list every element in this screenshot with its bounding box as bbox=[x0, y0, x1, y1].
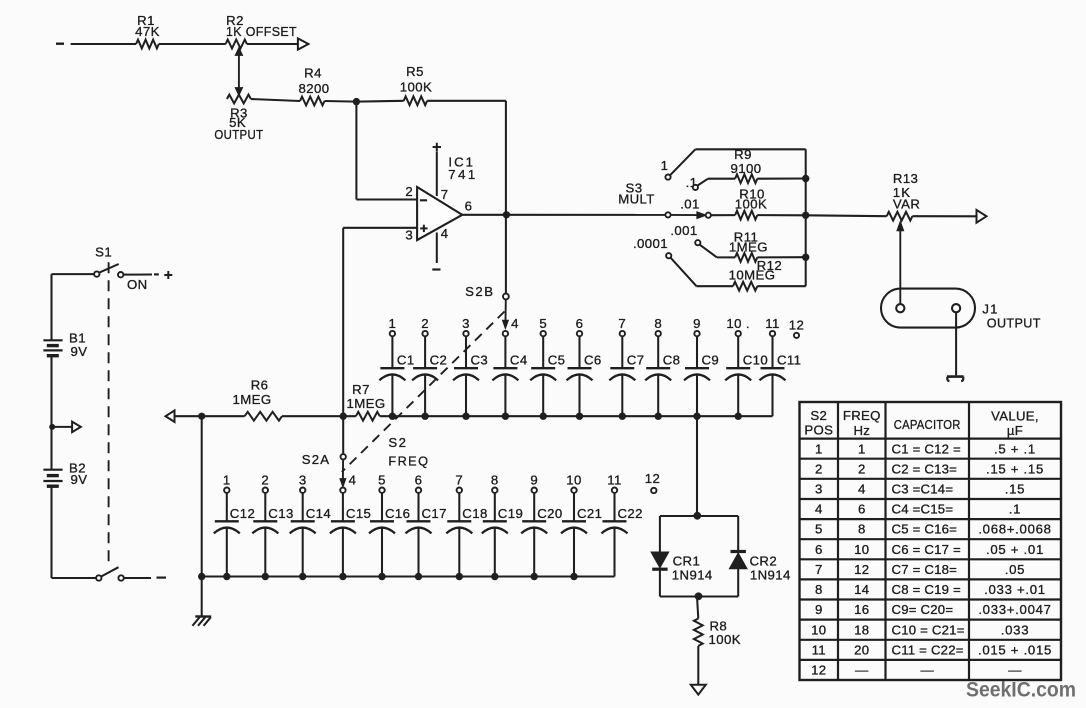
svg-text:7: 7 bbox=[455, 473, 463, 488]
svg-text:8: 8 bbox=[491, 473, 499, 488]
svg-text:CR1: CR1 bbox=[673, 553, 701, 568]
svg-text:C21: C21 bbox=[577, 506, 602, 521]
svg-text:C22: C22 bbox=[618, 506, 643, 521]
svg-text:12: 12 bbox=[645, 471, 660, 486]
svg-text:2: 2 bbox=[261, 473, 269, 488]
svg-text:S2A: S2A bbox=[302, 452, 331, 467]
svg-text:9: 9 bbox=[693, 316, 701, 331]
svg-text:C9= C20=: C9= C20= bbox=[892, 602, 954, 617]
svg-text:C7: C7 bbox=[627, 352, 645, 367]
svg-text:C5: C5 bbox=[548, 352, 566, 367]
svg-text:C7 = C18=: C7 = C18= bbox=[892, 562, 958, 577]
svg-text:C16: C16 bbox=[385, 506, 410, 521]
svg-text:.033+.0047: .033+.0047 bbox=[978, 602, 1051, 617]
svg-text:5: 5 bbox=[539, 316, 547, 331]
svg-text:R13: R13 bbox=[893, 171, 918, 186]
svg-text:9: 9 bbox=[530, 473, 538, 488]
svg-text:CAPACITOR: CAPACITOR bbox=[894, 417, 961, 432]
svg-text:9V: 9V bbox=[71, 472, 88, 487]
svg-text:1: 1 bbox=[858, 441, 866, 456]
svg-text:6: 6 bbox=[858, 502, 866, 517]
svg-text:MULT: MULT bbox=[618, 192, 655, 207]
svg-text:1: 1 bbox=[389, 316, 397, 331]
svg-text:11: 11 bbox=[765, 316, 780, 331]
svg-text:100K: 100K bbox=[400, 80, 432, 95]
svg-text:10MEG: 10MEG bbox=[729, 268, 776, 283]
svg-text:.1: .1 bbox=[1009, 502, 1021, 517]
svg-text:.015 + .015: .015 + .015 bbox=[978, 642, 1052, 657]
svg-text:C4 =C15=: C4 =C15= bbox=[892, 502, 954, 517]
svg-text:C14: C14 bbox=[306, 506, 331, 521]
svg-text:—: — bbox=[920, 663, 934, 678]
svg-text:C3: C3 bbox=[471, 352, 489, 367]
svg-text:11: 11 bbox=[812, 642, 826, 657]
svg-text:C17: C17 bbox=[422, 506, 447, 521]
svg-text:.15: .15 bbox=[1005, 482, 1025, 497]
svg-text:12: 12 bbox=[854, 562, 869, 577]
svg-text:741: 741 bbox=[448, 167, 478, 182]
svg-text:12: 12 bbox=[811, 663, 826, 678]
svg-text:—: — bbox=[855, 663, 869, 678]
svg-text:7: 7 bbox=[815, 562, 823, 577]
svg-text:4: 4 bbox=[511, 316, 519, 331]
svg-text:8: 8 bbox=[858, 522, 866, 537]
svg-text:FREQ: FREQ bbox=[388, 453, 429, 468]
svg-text:8200: 8200 bbox=[299, 81, 330, 96]
svg-text:C8 = C19 =: C8 = C19 = bbox=[892, 582, 962, 597]
svg-text:.05: .05 bbox=[1005, 562, 1025, 577]
svg-text:C6: C6 bbox=[584, 352, 602, 367]
svg-text:6: 6 bbox=[815, 542, 823, 557]
svg-text:7: 7 bbox=[441, 187, 449, 202]
svg-text:1MEG: 1MEG bbox=[729, 240, 768, 255]
svg-text:R4: R4 bbox=[304, 66, 322, 81]
svg-text:C11 = C22=: C11 = C22= bbox=[892, 642, 964, 657]
svg-text:1: 1 bbox=[223, 473, 231, 488]
svg-text:ON: ON bbox=[127, 277, 148, 292]
svg-text:6: 6 bbox=[465, 199, 473, 214]
svg-text:.001: .001 bbox=[670, 223, 697, 238]
svg-text:.01: .01 bbox=[680, 196, 700, 211]
svg-text:8: 8 bbox=[815, 582, 823, 597]
svg-text:S2: S2 bbox=[388, 435, 407, 450]
svg-text:Hz: Hz bbox=[853, 423, 870, 438]
svg-text:9100: 9100 bbox=[731, 161, 762, 176]
svg-text:1N914: 1N914 bbox=[672, 567, 713, 582]
svg-text:1: 1 bbox=[815, 441, 823, 456]
svg-text:.15 + .15: .15 + .15 bbox=[986, 461, 1044, 476]
svg-text:100K: 100K bbox=[735, 197, 767, 212]
svg-text:3: 3 bbox=[405, 227, 413, 242]
svg-text:6: 6 bbox=[415, 473, 423, 488]
svg-text:C18: C18 bbox=[462, 506, 487, 521]
svg-text:—: — bbox=[1008, 663, 1022, 678]
svg-text:47K: 47K bbox=[135, 24, 160, 39]
svg-text:18: 18 bbox=[854, 622, 869, 637]
svg-text:C10 = C21=: C10 = C21= bbox=[892, 622, 965, 637]
svg-text:9V: 9V bbox=[71, 344, 88, 359]
svg-text:OUTPUT: OUTPUT bbox=[987, 315, 1041, 330]
svg-text:1MEG: 1MEG bbox=[233, 392, 272, 407]
svg-text:4: 4 bbox=[815, 502, 823, 517]
svg-text:10: 10 bbox=[811, 622, 826, 637]
svg-text:3: 3 bbox=[299, 473, 307, 488]
svg-text:2: 2 bbox=[858, 461, 866, 476]
svg-text:S2: S2 bbox=[810, 408, 827, 423]
svg-text:C13: C13 bbox=[268, 506, 293, 521]
svg-text:CR2: CR2 bbox=[750, 553, 778, 568]
svg-text:.5 + .1: .5 + .1 bbox=[994, 441, 1036, 456]
svg-text:µF: µF bbox=[1007, 423, 1023, 438]
svg-text:C9: C9 bbox=[702, 352, 720, 367]
svg-text:R7: R7 bbox=[352, 382, 370, 397]
svg-text:1N914: 1N914 bbox=[750, 567, 791, 582]
svg-text:C12: C12 bbox=[230, 506, 255, 521]
svg-text:VALUE,: VALUE, bbox=[991, 408, 1039, 423]
svg-text:.068+.0068: .068+.0068 bbox=[978, 522, 1051, 537]
svg-text:C6 = C17 =: C6 = C17 = bbox=[892, 542, 962, 557]
svg-text:10 .: 10 . bbox=[726, 316, 750, 331]
svg-text:C5 = C16=: C5 = C16= bbox=[892, 522, 958, 537]
svg-text:12: 12 bbox=[789, 318, 804, 333]
svg-text:S1: S1 bbox=[95, 244, 112, 259]
svg-text:FREQ: FREQ bbox=[843, 408, 881, 423]
svg-text:C1 = C12 =: C1 = C12 = bbox=[892, 441, 962, 456]
svg-text:.033: .033 bbox=[1001, 622, 1029, 637]
svg-text:1: 1 bbox=[661, 158, 669, 173]
svg-text:OUTPUT: OUTPUT bbox=[214, 127, 263, 142]
svg-text:4: 4 bbox=[441, 226, 449, 241]
svg-text:S2B: S2B bbox=[465, 284, 494, 299]
svg-text:1MEG: 1MEG bbox=[347, 396, 386, 411]
svg-text:6: 6 bbox=[576, 316, 584, 331]
svg-text:C10: C10 bbox=[743, 352, 768, 367]
svg-text:C1: C1 bbox=[397, 352, 415, 367]
svg-text:C2 = C13=: C2 = C13= bbox=[892, 461, 958, 476]
svg-text:5: 5 bbox=[378, 473, 386, 488]
svg-text:10: 10 bbox=[854, 542, 869, 557]
svg-text:1K OFFSET: 1K OFFSET bbox=[226, 24, 297, 39]
svg-text:VAR: VAR bbox=[893, 196, 920, 211]
svg-text:4: 4 bbox=[858, 482, 866, 497]
svg-text:3: 3 bbox=[462, 316, 470, 331]
svg-text:C4: C4 bbox=[510, 352, 528, 367]
svg-text:2: 2 bbox=[421, 316, 429, 331]
svg-text:R6: R6 bbox=[251, 377, 269, 392]
svg-text:9: 9 bbox=[815, 602, 823, 617]
svg-text:J1: J1 bbox=[982, 301, 998, 316]
svg-text:.05 + .01: .05 + .01 bbox=[986, 542, 1044, 557]
svg-text:10: 10 bbox=[566, 473, 581, 488]
svg-text:4: 4 bbox=[349, 473, 357, 488]
svg-text:14: 14 bbox=[854, 582, 869, 597]
svg-text:.033 +.01: .033 +.01 bbox=[984, 582, 1046, 597]
svg-text:8: 8 bbox=[654, 316, 662, 331]
svg-text:C15: C15 bbox=[346, 506, 371, 521]
svg-text:7: 7 bbox=[618, 316, 626, 331]
svg-text:C20: C20 bbox=[537, 506, 562, 521]
svg-text:3: 3 bbox=[815, 482, 823, 497]
svg-text:POS: POS bbox=[804, 422, 833, 437]
svg-text:SeekIC.com: SeekIC.com bbox=[966, 678, 1076, 702]
svg-text:C11: C11 bbox=[777, 352, 801, 367]
svg-text:16: 16 bbox=[854, 602, 869, 617]
svg-text:.0001: .0001 bbox=[633, 236, 668, 251]
svg-text:C8: C8 bbox=[663, 352, 681, 367]
svg-text:C3 =C14=: C3 =C14= bbox=[892, 482, 954, 497]
svg-text:R5: R5 bbox=[406, 64, 424, 79]
svg-text:100K: 100K bbox=[709, 632, 741, 647]
svg-text:2: 2 bbox=[815, 461, 823, 476]
svg-text:C19: C19 bbox=[498, 506, 523, 521]
svg-text:5: 5 bbox=[815, 522, 823, 537]
svg-text:2: 2 bbox=[405, 184, 413, 199]
svg-text:C2: C2 bbox=[430, 352, 448, 367]
svg-text:R9: R9 bbox=[734, 147, 752, 162]
svg-text:11: 11 bbox=[607, 473, 622, 488]
svg-text:20: 20 bbox=[854, 642, 869, 657]
